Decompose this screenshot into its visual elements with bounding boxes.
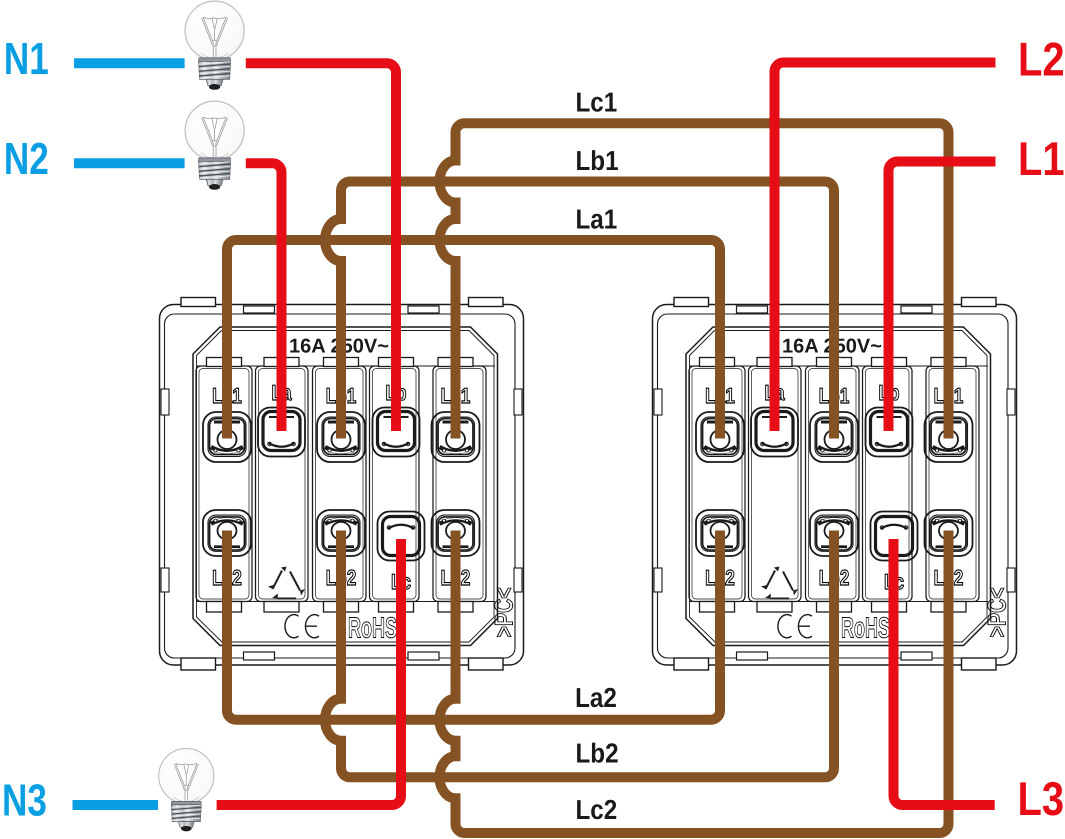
wire lamp2 to La (red) xyxy=(246,163,282,431)
svg-text:Lb2: Lb2 xyxy=(576,738,619,769)
svg-text:N2: N2 xyxy=(4,133,49,184)
wire Lb2 link (brown) xyxy=(325,531,834,778)
lamp E3 xyxy=(159,748,214,831)
svg-text:La2: La2 xyxy=(575,682,617,713)
lamp E1 xyxy=(185,1,244,90)
wire lamp3 to Lc (red) xyxy=(217,539,401,805)
svg-text:La1: La1 xyxy=(576,204,618,235)
wire La1 link (brown) xyxy=(227,240,720,439)
svg-text:L2: L2 xyxy=(1018,34,1065,87)
wire L1 feed (red) xyxy=(889,162,996,432)
svg-text:L3: L3 xyxy=(1018,773,1065,826)
wire N2 neutral (blue) xyxy=(74,158,185,168)
wire Lc2 link (brown) xyxy=(440,531,949,834)
wire L3 feed (red) xyxy=(894,539,995,805)
svg-text:N1: N1 xyxy=(4,33,49,84)
svg-text:Lb1: Lb1 xyxy=(576,145,619,176)
wire La2 link (brown) xyxy=(227,531,720,720)
switch SW1 xyxy=(160,298,524,671)
svg-text:Lc2: Lc2 xyxy=(576,794,618,825)
svg-text:N3: N3 xyxy=(2,775,47,826)
wire Lb1 link (brown) xyxy=(325,182,834,439)
wire L2 feed (red) xyxy=(775,63,996,432)
wire lamp1 to Lb (red) xyxy=(246,63,396,431)
svg-text:L1: L1 xyxy=(1018,133,1065,186)
wire N1 neutral (blue) xyxy=(74,58,185,68)
svg-text:Lc1: Lc1 xyxy=(576,87,618,118)
switch SW2 xyxy=(653,298,1017,671)
wire Lc1 link (brown) xyxy=(440,123,949,438)
lamp E2 xyxy=(185,101,244,190)
wire N3 neutral (blue) xyxy=(73,800,159,810)
